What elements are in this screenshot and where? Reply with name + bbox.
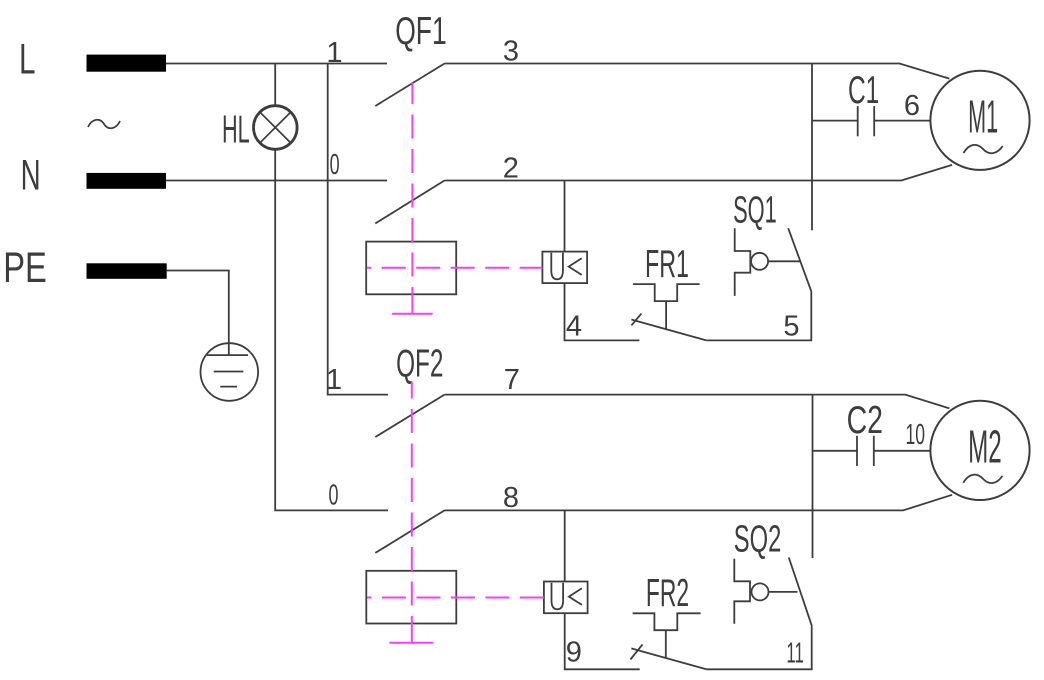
limit switch SQ1 plunger	[735, 228, 751, 296]
undervoltage release U2 box	[544, 582, 588, 614]
M2 tilde	[963, 475, 1002, 483]
svg-text:C2: C2	[847, 399, 883, 442]
svg-text:2: 2	[503, 153, 519, 185]
FR1 contact blade	[631, 320, 706, 341]
breaker QF2 pole 2 blade	[375, 510, 444, 553]
earth electrode	[201, 343, 259, 401]
terminal L	[87, 55, 167, 72]
wire U1 to line 4	[565, 283, 640, 340]
motor M1	[930, 71, 1029, 170]
lamp HL	[253, 106, 297, 150]
svg-text:SQ2: SQ2	[734, 518, 782, 560]
SQ1 roller	[751, 253, 768, 270]
wire lamp branch upper	[274, 64, 276, 106]
breaker QF1 pole 1 blade	[375, 64, 444, 107]
svg-text:M2: M2	[968, 421, 1002, 473]
svg-text:M1: M1	[968, 91, 998, 143]
svg-text:FR1: FR1	[645, 243, 689, 286]
svg-text:C1: C1	[848, 69, 879, 112]
svg-text:N: N	[21, 152, 41, 200]
QF1 release box	[366, 242, 456, 295]
FR2 actuator stem	[665, 630, 667, 658]
svg-text:1: 1	[326, 364, 342, 396]
FR1 actuator stem	[665, 301, 667, 329]
wire line3 drop to SQ1	[811, 64, 813, 231]
QF1 trip linkage dashed	[411, 83, 413, 311]
breaker QF1 pole 2 blade	[375, 181, 444, 224]
wire line 7	[445, 395, 950, 409]
breaker QF2 pole 1 blade	[375, 395, 444, 437]
wire lamp branch lower down to QF2 N-pole stub	[275, 149, 388, 510]
terminal PE	[87, 263, 167, 279]
SQ2 roller	[752, 583, 769, 600]
QF1 release dashed link to U1	[367, 267, 543, 269]
QF2 release dashed link to U2	[367, 597, 544, 599]
wire N rail	[166, 180, 387, 182]
svg-text:QF2: QF2	[396, 342, 443, 385]
QF2 release box	[366, 571, 456, 624]
limit switch SQ2 plunger	[734, 559, 750, 624]
wire line7 drop to SQ2	[812, 395, 814, 558]
QF1 linkage T-bar	[392, 311, 433, 314]
wire line 2	[445, 165, 953, 181]
svg-text:4: 4	[566, 311, 582, 343]
wire line 8	[445, 495, 953, 511]
SQ1 blade	[788, 228, 811, 291]
U2 U glyph	[552, 583, 564, 610]
wire PE to earth	[167, 271, 229, 356]
wire line 5	[706, 291, 811, 340]
motor M2	[930, 401, 1029, 500]
svg-text:10: 10	[905, 419, 925, 451]
svg-text:8: 8	[503, 482, 519, 514]
wire line 11	[706, 626, 811, 669]
wire L branch down to QF2 L-pole stub	[328, 64, 388, 395]
AC tilde symbol	[88, 120, 120, 128]
QF2 trip linkage dashed	[411, 382, 413, 641]
U1 U glyph	[551, 253, 563, 279]
svg-text:11: 11	[786, 638, 804, 670]
svg-text:HL: HL	[222, 109, 250, 152]
svg-text:FR2: FR2	[646, 572, 689, 615]
svg-text:PE: PE	[3, 244, 47, 292]
svg-text:QF1: QF1	[395, 10, 447, 53]
wire line8 to U2	[564, 510, 566, 581]
wire L rail	[166, 63, 387, 65]
capacitor C2	[813, 436, 931, 466]
QF2 linkage T-bar	[389, 640, 433, 643]
M1 tilde	[964, 145, 1003, 153]
svg-text:3: 3	[503, 36, 519, 68]
svg-text:9: 9	[566, 637, 582, 669]
wire line2 to U1	[564, 181, 566, 252]
svg-text:1: 1	[326, 37, 342, 69]
terminal N	[87, 173, 167, 189]
svg-text:0: 0	[330, 149, 340, 181]
svg-text:7: 7	[504, 364, 520, 396]
svg-text:SQ1: SQ1	[733, 189, 777, 231]
svg-text:6: 6	[904, 90, 920, 122]
undervoltage release U1 box	[542, 252, 587, 284]
svg-text:5: 5	[783, 311, 799, 343]
FR2 contact blade	[631, 648, 706, 669]
thermal element FR1	[633, 284, 700, 301]
U1 < glyph	[569, 258, 582, 275]
SQ2 roller link	[769, 591, 798, 593]
thermal element FR2	[633, 613, 701, 630]
FR1 contact tick	[631, 314, 641, 326]
U2 < glyph	[569, 588, 582, 605]
SQ2 blade	[789, 558, 812, 627]
FR2 contact tick	[630, 644, 642, 659]
wire U2 to line 9	[565, 613, 640, 669]
wire line 3	[445, 64, 950, 79]
svg-text:L: L	[19, 36, 36, 84]
svg-text:0: 0	[329, 480, 339, 512]
SQ1 roller link	[768, 260, 801, 262]
capacitor C1	[812, 106, 930, 136]
